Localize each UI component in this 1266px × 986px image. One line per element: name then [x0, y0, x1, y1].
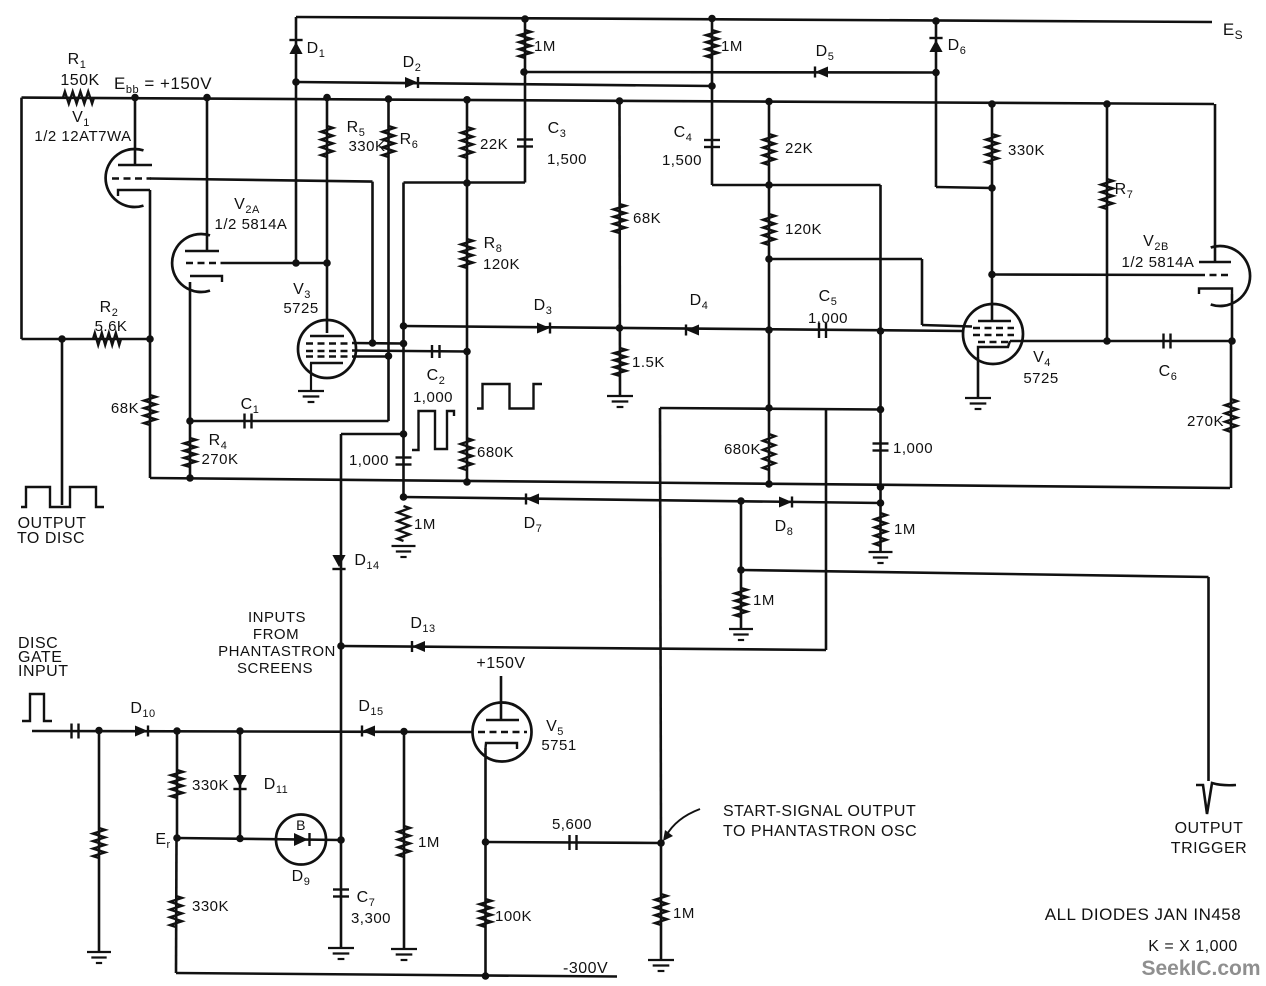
- ground V3: [298, 391, 324, 402]
- junction node (769,484): [765, 480, 773, 488]
- svg-text:1,000: 1,000: [808, 310, 848, 327]
- resistor 1M (under D7): [398, 506, 410, 541]
- wire V2A plate: [206, 98, 209, 251]
- svg-text:22K: 22K: [480, 136, 508, 153]
- waveform V3 out (positive pulses): [477, 384, 542, 409]
- tube V2A envelope: [172, 234, 210, 292]
- wire top rail Es: [296, 17, 1212, 22]
- junction node (388.5,356): [385, 352, 393, 360]
- wire output-to-disc drop: [61, 339, 64, 505]
- junction node (769,330): [765, 326, 773, 334]
- capacitor C6: [1164, 334, 1171, 349]
- tube V1 cathode: [118, 190, 150, 196]
- svg-text:SCREENS: SCREENS: [237, 660, 313, 677]
- junction node (240,731): [236, 727, 244, 735]
- svg-text:1M: 1M: [894, 521, 916, 538]
- wire 1M-741 drop: [740, 501, 743, 629]
- junction node (190,478): [186, 474, 194, 482]
- wire -300V rail: [176, 973, 617, 977]
- svg-text:K = X 1,000: K = X 1,000: [1148, 938, 1238, 955]
- svg-text:1M: 1M: [753, 592, 775, 609]
- resistor 1M (under D8): [875, 513, 887, 546]
- ground input resistor: [87, 952, 111, 963]
- resistor 1M (bottom): [655, 894, 667, 925]
- wire R6 vertical: [387, 99, 390, 421]
- resistor 1.5K: [614, 348, 626, 376]
- tube V3 cathode: [310, 363, 343, 391]
- wire 434 link: [341, 433, 404, 436]
- junction node (177,731): [173, 727, 181, 735]
- svg-text:1,000: 1,000: [349, 452, 389, 469]
- svg-text:1.5K: 1.5K: [632, 354, 665, 371]
- junction node (467,482): [463, 478, 471, 486]
- svg-text:330K: 330K: [348, 138, 385, 155]
- svg-text:-300V: -300V: [563, 960, 608, 977]
- diode D3: [537, 322, 550, 333]
- svg-text:1,000: 1,000: [413, 389, 453, 406]
- svg-text:TO DISC: TO DISC: [17, 530, 85, 547]
- wire V3 grid1 line: [352, 342, 404, 345]
- tube V3 plate: [310, 335, 344, 337]
- resistor R1 150K: [63, 92, 94, 104]
- diode D6: [929, 38, 942, 52]
- capacitor 1000 (node 403): [396, 458, 412, 465]
- ground 1M node880: [869, 552, 893, 563]
- wire node-880 vertical: [879, 185, 882, 503]
- svg-text:+150V: +150V: [476, 655, 525, 672]
- svg-text:1M: 1M: [534, 38, 556, 55]
- junction node (992,274.5): [988, 271, 996, 279]
- svg-text:1/2 5814A: 1/2 5814A: [215, 216, 288, 233]
- junction node (150,339): [146, 335, 154, 343]
- tube V4 5725 envelope: [963, 304, 1023, 364]
- wire 1M bottom drop: [660, 843, 663, 960]
- wire V4 upper grid entry: [922, 325, 972, 327]
- svg-text:3,300: 3,300: [351, 910, 391, 927]
- resistor R2 5.6K: [93, 333, 121, 345]
- wire V5 cathode/100K drop: [484, 748, 487, 977]
- svg-text:TRIGGER: TRIGGER: [1171, 840, 1247, 857]
- wire V3 grid2/C2 line: [352, 351, 467, 352]
- svg-text:330K: 330K: [192, 777, 229, 794]
- resistor 100K: [480, 899, 492, 927]
- tube V5 plate: [486, 719, 519, 721]
- wire left rail vertical: [20, 98, 23, 339]
- wire V2B cathode drop: [1231, 294, 1234, 341]
- svg-text:INPUTS: INPUTS: [248, 609, 306, 626]
- resistor 270K: [1225, 399, 1237, 432]
- wire D14 vertical: [340, 434, 343, 840]
- wire 1M-404 drop: [403, 732, 406, 950]
- wire V1 grid line: [150, 179, 373, 182]
- resistor 22K (right): [763, 134, 775, 165]
- wire R5/V3 plate vertical: [326, 98, 329, 333]
- wire V2B plate vertical: [1214, 104, 1217, 262]
- svg-text:SeekIC.com: SeekIC.com: [1141, 957, 1260, 980]
- junction node (403.5,497): [400, 493, 408, 501]
- diode D11: [233, 775, 246, 789]
- svg-text:100K: 100K: [495, 908, 532, 925]
- diode D15: [362, 725, 375, 736]
- svg-text:120K: 120K: [785, 221, 822, 238]
- ground 1M node741: [729, 629, 753, 640]
- junction node (372.5,343): [369, 339, 377, 347]
- svg-text:680K: 680K: [477, 444, 514, 461]
- junction node (661,843): [657, 839, 665, 847]
- svg-text:1,000: 1,000: [893, 440, 933, 457]
- junction node (327,97.6): [323, 94, 331, 102]
- resistor 680K (right): [763, 434, 775, 470]
- resistor 120K: [763, 214, 775, 245]
- capacitor C4 1500: [704, 140, 720, 147]
- junction node (880.5,503): [877, 499, 885, 507]
- wire D1 vertical: [295, 17, 298, 263]
- resistor input shunt: [93, 828, 105, 858]
- svg-text:330K: 330K: [192, 898, 229, 915]
- waveform disc-gate-input: [22, 694, 52, 721]
- wire R7 vertical: [1106, 104, 1109, 341]
- wire Ebb +150V rail: [22, 98, 1215, 104]
- resistor R7: [1101, 179, 1113, 209]
- junction node (99,730.5): [95, 727, 103, 735]
- junction node (769,408): [765, 404, 773, 412]
- ground 1M node403: [392, 546, 416, 557]
- ground V4: [965, 398, 991, 409]
- junction node (62,339): [58, 335, 66, 343]
- wire D6 vertical: [935, 21, 938, 187]
- ground 1M node404: [391, 949, 417, 960]
- wire V2B grid line: [992, 273, 1198, 276]
- resistor 1M (top mid): [706, 30, 718, 58]
- junction node (1107,104): [1103, 100, 1111, 108]
- resistor R4 270K: [184, 438, 196, 467]
- wire 22K2/120K/680K2 vertical: [768, 100, 771, 484]
- wire V1 plate: [134, 98, 137, 165]
- wire input line: [32, 731, 472, 732]
- junction node (992,104): [988, 100, 996, 108]
- tube V2A grid: [186, 262, 226, 264]
- junction node (403.5,326): [400, 322, 408, 330]
- wire 330K chain vertical bottom: [175, 838, 178, 973]
- wire 120K mid link: [769, 258, 922, 261]
- tube V4 grid rows: [973, 328, 1014, 342]
- tube V4 cathode: [978, 341, 1010, 357]
- junction node (485.5,842): [482, 838, 490, 846]
- svg-text:START-SIGNAL OUTPUT: START-SIGNAL OUTPUT: [723, 803, 916, 820]
- junction node (769,259): [765, 255, 773, 263]
- svg-text:270K: 270K: [1187, 413, 1224, 430]
- resistor 330K (upper): [171, 770, 183, 798]
- tube V3 grid rows: [306, 344, 352, 357]
- tube V5 cathode: [486, 743, 518, 749]
- diode D14: [332, 555, 345, 569]
- junction node (467,99.8): [463, 96, 471, 104]
- svg-text:OUTPUT: OUTPUT: [1175, 820, 1244, 837]
- wire 5600 line: [486, 842, 662, 843]
- resistor 1M (top left): [519, 30, 531, 58]
- wire node-660 vertical: [660, 408, 661, 843]
- diode D1: [289, 40, 302, 54]
- svg-text:1,500: 1,500: [662, 152, 702, 169]
- svg-text:FROM: FROM: [253, 626, 299, 643]
- junction node (880.5,409.5): [877, 406, 885, 414]
- junction node (741,570): [737, 566, 745, 574]
- junction node (467,351.5): [463, 348, 471, 356]
- diode D5: [815, 66, 828, 77]
- waveform output trigger: [1196, 783, 1236, 814]
- junction node (936,21): [932, 17, 940, 25]
- junction node (296,263): [292, 259, 300, 267]
- diode D4: [686, 324, 699, 335]
- wire V1-grid to V3-grid vertical: [371, 182, 374, 343]
- wire 922 jog vertical: [921, 259, 924, 325]
- junction node (1232,341): [1228, 337, 1236, 345]
- capacitor input coupling: [72, 724, 79, 739]
- tube V2B grid: [1198, 274, 1232, 276]
- tube V1 grid: [112, 177, 151, 179]
- wire Er line: [177, 838, 341, 840]
- wire D3/D4/C5 line: [404, 326, 964, 331]
- resistor 22K (left): [461, 127, 473, 158]
- resistor 330K (V4): [986, 134, 998, 164]
- resistor 68K (V1 cathode): [144, 395, 156, 425]
- wire C4 bottom link: [712, 184, 881, 187]
- svg-text:120K: 120K: [483, 256, 520, 273]
- capacitor C2 1000: [432, 345, 440, 358]
- junction node (485.5,976): [482, 972, 490, 980]
- svg-text:68K: 68K: [633, 210, 661, 227]
- wire 680K-top link: [660, 408, 881, 410]
- capacitor C7 3300: [333, 890, 349, 897]
- junction node (992,188): [988, 184, 996, 192]
- resistor 68K (mid): [614, 204, 626, 233]
- wire input shunt resistor drop: [98, 731, 101, 953]
- diode D9 (in circle): [276, 815, 326, 865]
- wire D5 line: [524, 71, 936, 74]
- junction node (741,501): [737, 497, 745, 505]
- wire C7 drop: [340, 840, 343, 948]
- junction node (525,19): [521, 15, 529, 23]
- wire common bottom line: [150, 478, 1230, 488]
- junction node (341,840): [337, 836, 345, 844]
- wire 270K vertical: [1230, 341, 1233, 488]
- tube V5 grid: [478, 731, 527, 733]
- junction node (403.5,343.5): [400, 340, 408, 348]
- annotation start-signal arrow: [663, 809, 700, 841]
- tube V2A cathode: [190, 276, 222, 282]
- svg-text:B: B: [296, 817, 306, 833]
- waveform V3 out (negative pulses): [412, 411, 454, 450]
- tube V2B cathode: [1199, 289, 1232, 295]
- tube V2A plate: [185, 250, 219, 252]
- junction node (769,185): [765, 181, 773, 189]
- junction node (619.5,328): [616, 324, 624, 332]
- resistor 1M (under D15): [398, 826, 410, 857]
- junction node (177,838): [173, 834, 181, 842]
- wire D7/D8 line: [404, 497, 881, 503]
- tube V5 5751 envelope: [473, 703, 532, 762]
- wire 68K/1.5K vertical: [618, 101, 621, 396]
- wire D11 vertical: [239, 731, 242, 839]
- junction node (296,82): [292, 78, 300, 86]
- junction node (936,72.5): [932, 69, 940, 77]
- wire node-403 vertical: [402, 183, 405, 498]
- svg-text:1/2 12AT7WA: 1/2 12AT7WA: [34, 128, 131, 145]
- resistor 680K (left): [461, 438, 473, 470]
- wire 330K chain vertical top: [176, 731, 179, 838]
- wire D6 to 330K link: [936, 187, 992, 188]
- junction node (190,421): [186, 417, 194, 425]
- resistor R5 330K: [321, 126, 333, 157]
- wire V2A grid line: [226, 262, 327, 265]
- junction node (1107,341): [1103, 337, 1111, 345]
- tube V1 1/2 12AT7WA envelope: [106, 149, 144, 207]
- tube V1 plate: [118, 164, 152, 166]
- wire V3 grid3 stub: [352, 355, 389, 358]
- wire 1M-880 drop: [879, 503, 882, 552]
- resistor 330K (lower): [170, 896, 182, 927]
- wire node-826 vertical: [825, 409, 828, 650]
- wire C4 vertical: [711, 19, 714, 186]
- wire trigger output line: [741, 570, 1209, 577]
- tube V2B envelope: [1211, 246, 1250, 306]
- wire V5 plate from +150V: [500, 676, 503, 720]
- svg-text:1,500: 1,500: [547, 151, 587, 168]
- svg-text:TO PHANTASTRON OSC: TO PHANTASTRON OSC: [723, 823, 917, 840]
- svg-text:5725: 5725: [1023, 370, 1058, 387]
- junction node (207,97.6): [203, 94, 211, 102]
- junction node (240,838.5): [236, 835, 244, 843]
- diode D2: [405, 77, 418, 88]
- tube V4 plate: [978, 320, 1011, 322]
- tube V2B plate: [1199, 261, 1231, 263]
- svg-text:5,600: 5,600: [552, 816, 592, 833]
- svg-text:1M: 1M: [673, 905, 695, 922]
- junction node (619.5,101): [616, 97, 624, 105]
- resistor R6: [383, 126, 395, 157]
- capacitor C5 1000: [819, 323, 826, 338]
- svg-text:PHANTASTRON: PHANTASTRON: [218, 643, 336, 660]
- diode D10: [135, 725, 148, 736]
- wire D2 line: [296, 82, 712, 86]
- resistor R8 120K: [461, 239, 473, 268]
- waveform output-to-disc: [21, 487, 104, 507]
- wire V1 cathode down: [149, 190, 152, 478]
- tube V3 5725 envelope: [298, 320, 356, 378]
- capacitor 1000 (node 880): [873, 444, 889, 451]
- svg-text:INPUT: INPUT: [18, 663, 69, 680]
- svg-text:22K: 22K: [785, 140, 813, 157]
- junction node (404,731.5): [400, 728, 408, 736]
- junction node (327,263): [323, 259, 331, 267]
- wire V4 output line: [1010, 340, 1232, 343]
- junction node (135,97.6): [131, 94, 139, 102]
- diode D13: [412, 641, 425, 652]
- junction node (769,101.5): [765, 98, 773, 106]
- svg-text:1M: 1M: [721, 38, 743, 55]
- wire C1 line: [190, 420, 389, 423]
- junction node (388.5,99): [385, 95, 393, 103]
- svg-text:5751: 5751: [541, 737, 576, 754]
- svg-text:5.6K: 5.6K: [95, 318, 128, 335]
- wire C3 vertical: [524, 19, 527, 183]
- ground C7: [328, 948, 354, 959]
- svg-text:1M: 1M: [414, 516, 436, 533]
- wire 330K/V4 plate vertical: [991, 104, 994, 322]
- junction node (880.5,487): [877, 483, 885, 491]
- junction node (467,183): [463, 179, 471, 187]
- resistor 1M (D7 mid): [735, 588, 747, 617]
- ground 1.5K: [607, 396, 633, 407]
- svg-text:ALL DIODES JAN IN458: ALL DIODES JAN IN458: [1045, 905, 1241, 924]
- svg-text:5725: 5725: [283, 300, 318, 317]
- junction node (524,72): [520, 68, 528, 76]
- svg-text:1/2 5814A: 1/2 5814A: [1122, 254, 1195, 271]
- svg-text:680K: 680K: [724, 441, 761, 458]
- diode D7: [526, 493, 539, 504]
- wire V4 cathode ground drop: [977, 357, 980, 398]
- svg-text:1M: 1M: [418, 834, 440, 851]
- junction node (341,646): [337, 642, 345, 650]
- wire C3 bottom link: [404, 181, 526, 184]
- junction node (403.5,434): [400, 430, 408, 438]
- diode D8: [779, 496, 792, 507]
- ground 1M bottom: [648, 960, 674, 971]
- wire 22K/R8/680K vertical: [466, 100, 469, 483]
- junction node (880.5,331): [877, 327, 885, 335]
- junction node (712,18.5): [708, 15, 716, 23]
- svg-text:270K: 270K: [201, 451, 238, 468]
- svg-text:68K: 68K: [111, 400, 139, 417]
- capacitor C1: [245, 414, 252, 429]
- svg-text:150K: 150K: [60, 72, 99, 89]
- junction node (712,86): [708, 82, 716, 90]
- wire R2 line: [22, 338, 151, 341]
- wire D13 line: [341, 646, 826, 650]
- wire output trigger vertical: [1207, 577, 1210, 781]
- wire V2A cathode down: [189, 282, 192, 478]
- svg-text:330K: 330K: [1008, 142, 1045, 159]
- capacitor 5600: [570, 835, 577, 850]
- capacitor C3 1500: [517, 140, 533, 147]
